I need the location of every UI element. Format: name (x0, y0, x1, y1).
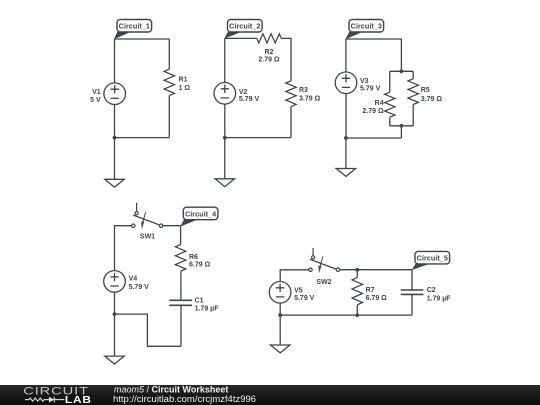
label Circuit_1 (117, 20, 152, 33)
svg-text:V3: V3 (360, 78, 369, 85)
wire bottom C3 (346, 137, 402, 139)
node junction C5 bottom-R7 (355, 313, 359, 317)
svg-text:Circuit_1: Circuit_1 (119, 22, 150, 31)
wire ground lead C2 (224, 138, 226, 179)
svg-text:V5: V5 (294, 288, 303, 295)
svg-text:maom5 / Circuit Worksheet: maom5 / Circuit Worksheet (114, 385, 228, 395)
wire ground lead C1 (114, 138, 116, 180)
wire right-upper C1 (168, 39, 170, 69)
svg-text:R1: R1 (179, 77, 188, 84)
wire left-lower C2 (224, 104, 226, 138)
resistor R7 (352, 278, 362, 305)
svg-text:R4: R4 (375, 100, 384, 107)
label tail Circuit_3 (345, 32, 362, 39)
wire R5 top lead (412, 71, 414, 79)
svg-text:LAB: LAB (65, 395, 92, 405)
switch SW2 arrow (318, 265, 321, 273)
wire top C1 (115, 38, 170, 40)
label tail Circuit_4 (180, 220, 197, 227)
svg-text:5.79 V: 5.79 V (129, 284, 150, 291)
wire switch-right to node C4 (163, 225, 181, 227)
svg-text:C2: C2 (427, 287, 436, 294)
resistor R3 (286, 81, 296, 107)
wire left-upper C1 (114, 39, 116, 83)
switch SW1 arrow (141, 221, 144, 229)
wire top-right C2 (281, 38, 291, 80)
wire capacitor to resistor C4 (180, 271, 182, 300)
svg-text:R3: R3 (299, 87, 308, 94)
switch SW1 (136, 203, 138, 212)
wire switch-left to source C4 (115, 226, 132, 271)
label tail Circuit_5 (412, 264, 429, 270)
wire C2 bottom lead (411, 294, 413, 315)
node junction C4 bottom (113, 312, 117, 316)
wire left-lower C3 (345, 94, 347, 138)
wire source bottom C5 (279, 303, 281, 315)
ground C3 (336, 169, 355, 177)
svg-text:SW2: SW2 (316, 279, 331, 286)
svg-text:3.79 Ω: 3.79 Ω (299, 96, 321, 103)
svg-text:1 Ω: 1 Ω (179, 85, 191, 92)
node junction C5 bottom-left (278, 313, 282, 317)
wire top-left C2 (225, 37, 257, 39)
label tail Circuit_2 (224, 32, 241, 39)
node junction C2 bottom (223, 136, 227, 140)
ground C1 (105, 179, 124, 187)
svg-text:2.79 Ω: 2.79 Ω (258, 57, 280, 64)
wire ground lead C5 (279, 315, 281, 345)
voltage source V4 (104, 271, 126, 293)
logo diode triangle (49, 397, 54, 403)
label Circuit_5 (415, 251, 450, 264)
svg-text:V1: V1 (92, 89, 101, 96)
wire source top C5 (280, 270, 308, 282)
wire left-lower C1 (114, 105, 116, 138)
capacitor C1 (169, 299, 192, 301)
wire source bottom C4 (114, 292, 116, 314)
svg-text:V2: V2 (239, 89, 248, 96)
wire switch-right to R7 C5 (340, 269, 412, 271)
svg-text:SW1: SW1 (140, 233, 155, 240)
wire parallel top rail C3 (390, 70, 413, 72)
wire right-lower C2 (290, 107, 292, 138)
resistor R4 (385, 92, 395, 117)
node junction C1 bottom (113, 136, 117, 140)
svg-text:5.79 V: 5.79 V (360, 86, 381, 93)
wire top C3 (346, 39, 402, 71)
wire bottom C1 (115, 137, 170, 139)
wire left-upper C2 (224, 38, 226, 82)
wire parallel bottom rail C3 (390, 125, 413, 127)
label tail Circuit_1 (114, 32, 131, 39)
label Circuit_4 (183, 207, 218, 220)
voltage source V1 (104, 83, 126, 105)
wire left-upper C3 (345, 39, 347, 72)
wire R7 bottom lead (356, 305, 358, 315)
wire bottom C2 (225, 137, 291, 139)
wire R7 top lead (356, 270, 358, 278)
svg-text:5 V: 5 V (90, 97, 101, 104)
node junction C5 switch-R7 (355, 268, 359, 272)
wire ground lead C3 (345, 138, 347, 169)
resistor R2 (257, 34, 282, 43)
wire down from rail C3 (400, 126, 402, 138)
wire bottom path C4 (115, 314, 182, 346)
wire ground lead C4 (114, 314, 116, 356)
wire R4 top lead (389, 71, 391, 92)
wire C2 top lead (411, 270, 413, 290)
node junction C3 rail top (400, 69, 404, 73)
wire R5 bottom lead (412, 105, 414, 126)
svg-text:2.79 Ω: 2.79 Ω (362, 108, 384, 115)
wire R4 bottom lead (389, 117, 391, 126)
resistor R5 (408, 79, 418, 105)
svg-text:1.79 µF: 1.79 µF (427, 295, 452, 302)
svg-text:http://circuitlab.com/crcjmzf4: http://circuitlab.com/crcjmzf4tz996 (113, 394, 256, 405)
svg-text:Circuit_5: Circuit_5 (417, 254, 448, 263)
wire node to resistor C4 (180, 226, 182, 244)
wire right-lower C1 (168, 96, 170, 138)
wire bottom C5 (280, 314, 412, 316)
voltage source V5 (269, 282, 291, 304)
voltage source V2 (214, 83, 236, 105)
wire capacitor bottom lead C4 (180, 305, 182, 346)
svg-text:V4: V4 (129, 276, 138, 283)
svg-text:1.79 µF: 1.79 µF (195, 306, 220, 313)
label Circuit_2 (228, 20, 263, 33)
svg-text:R2: R2 (265, 49, 274, 56)
voltage source V3 (335, 72, 357, 94)
resistor R6 (175, 245, 185, 272)
logo resistor-diode glyph (25, 397, 65, 403)
ground C4 (105, 356, 124, 364)
switch SW2 (312, 248, 314, 256)
svg-text:R7: R7 (366, 287, 375, 294)
svg-text:3.79 Ω: 3.79 Ω (421, 96, 443, 103)
node junction C3 bottom (344, 136, 348, 140)
ground C2 (215, 179, 234, 187)
svg-text:R6: R6 (189, 254, 198, 261)
resistor R1 (164, 69, 174, 95)
svg-text:6.79 Ω: 6.79 Ω (366, 295, 388, 302)
svg-text:Circuit_4: Circuit_4 (185, 209, 217, 218)
label Circuit_3 (349, 20, 384, 33)
node junction C3 rail bottom (400, 124, 404, 128)
svg-text:C1: C1 (195, 297, 204, 304)
svg-text:6.79 Ω: 6.79 Ω (189, 261, 211, 268)
svg-text:Circuit_2: Circuit_2 (229, 22, 260, 31)
svg-text:Circuit_3: Circuit_3 (351, 22, 382, 31)
svg-text:5.79 V: 5.79 V (239, 96, 260, 103)
ground C5 (271, 345, 290, 353)
capacitor C2 (401, 289, 424, 291)
svg-text:5.79 V: 5.79 V (294, 295, 315, 302)
svg-text:R5: R5 (421, 87, 430, 94)
